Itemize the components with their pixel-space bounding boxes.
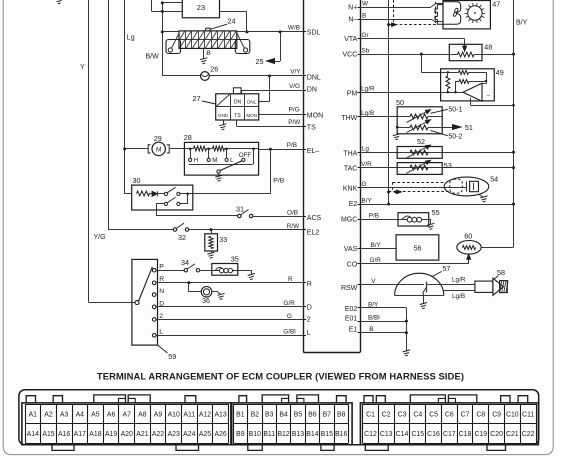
shift switch 59 box — [132, 259, 158, 345]
svg-text:A18: A18 — [89, 431, 101, 438]
svg-text:31: 31 — [236, 204, 244, 213]
node junction 23 pin B — [161, 10, 164, 13]
ground at top edge — [55, 0, 62, 4]
svg-text:A21: A21 — [136, 431, 148, 438]
wire DN (V/G) to ECM — [242, 90, 304, 92]
switch 28 track bar — [189, 164, 253, 166]
connector C feet — [365, 445, 388, 451]
pin MON (ECM left) — [304, 114, 307, 116]
svg-text:A22: A22 — [152, 431, 164, 438]
svg-text:L: L — [307, 330, 311, 337]
svg-text:E02: E02 — [345, 306, 358, 313]
svg-text:50: 50 — [396, 98, 404, 107]
contact M — [208, 149, 210, 158]
node B/Y-48 junction — [512, 53, 515, 56]
sensor-ground bus — [388, 0, 390, 204]
contact 59-L — [152, 334, 156, 338]
svg-text:B/W: B/W — [146, 53, 160, 60]
svg-text:G/Bl: G/Bl — [283, 329, 295, 336]
svg-text:C18: C18 — [459, 431, 472, 438]
contact L — [226, 149, 228, 158]
svg-text:Gr: Gr — [362, 32, 370, 39]
svg-text:R/W: R/W — [287, 223, 300, 230]
connector C tabs — [364, 396, 373, 403]
svg-text:B4: B4 — [279, 411, 288, 418]
svg-text:M: M — [156, 147, 161, 154]
svg-text:N+: N+ — [348, 4, 357, 11]
wire E ground rail — [406, 308, 408, 351]
svg-text:D: D — [307, 305, 312, 312]
switch 32 — [173, 228, 176, 231]
svg-text:N–: N– — [348, 16, 357, 23]
svg-text:A14: A14 — [27, 431, 39, 438]
svg-text:B: B — [362, 12, 366, 19]
svg-text:C8: C8 — [476, 411, 485, 418]
wire to lamp 36 — [188, 283, 190, 292]
svg-text:P/B: P/B — [369, 213, 379, 220]
wire heater 24 to SDL — [237, 31, 304, 33]
svg-text:G/R: G/R — [283, 300, 295, 307]
pin VTA (ECM right) — [358, 38, 361, 40]
svg-text:P/G: P/G — [289, 107, 300, 114]
pin N- (ECM right) — [358, 19, 361, 21]
svg-text:L: L — [159, 329, 163, 336]
svg-text:25: 25 — [256, 57, 264, 66]
ground knock sensor — [479, 194, 483, 197]
wire Lg vertical bus — [124, 0, 126, 194]
svg-text:B7: B7 — [323, 411, 332, 418]
buzzer 58 — [475, 281, 493, 292]
svg-text:35: 35 — [231, 254, 239, 263]
node R junction — [187, 281, 190, 284]
svg-text:A6: A6 — [107, 411, 116, 418]
svg-text:Sb: Sb — [362, 48, 370, 55]
node heater-SDL junction — [279, 30, 282, 33]
svg-text:P/B: P/B — [273, 178, 284, 185]
transistor dome 57 — [395, 273, 444, 295]
svg-text:EL–: EL– — [307, 148, 320, 155]
node VCC junction — [420, 53, 423, 56]
crank sensor 47 plug — [435, 5, 443, 25]
svg-text:60: 60 — [464, 232, 472, 241]
wire N+ (W) — [360, 7, 431, 9]
svg-text:ACS: ACS — [307, 215, 322, 222]
crank sensor 47 coil — [443, 2, 461, 24]
node B/Y-THA junction — [512, 151, 515, 154]
sensor 53 — [397, 163, 442, 175]
wire D to ECM — [156, 306, 304, 308]
blower switch 28 box — [184, 142, 258, 175]
svg-text:C20: C20 — [490, 431, 503, 438]
resistor 28-1 — [194, 146, 207, 151]
wire 23 pin A — [162, 2, 182, 4]
wire PM (Lg/R) — [360, 92, 463, 94]
pin DNL (ECM left) — [304, 75, 307, 77]
pin TS (ECM left) — [304, 126, 307, 128]
ground sensor 50 — [393, 134, 400, 140]
pin MGC (ECM right) — [358, 219, 361, 221]
connector B feet — [248, 445, 262, 451]
svg-text:2: 2 — [159, 313, 163, 320]
svg-text:C10: C10 — [506, 411, 519, 418]
49 internal feedback resistor — [456, 81, 460, 83]
lamp 36 — [201, 287, 212, 298]
svg-text:49: 49 — [496, 68, 504, 77]
svg-text:C19: C19 — [474, 431, 487, 438]
svg-text:A2: A2 — [44, 411, 53, 418]
svg-text:B16: B16 — [335, 431, 347, 438]
pin 2 (ECM left) — [304, 319, 307, 321]
svg-text:E2: E2 — [349, 201, 358, 208]
svg-text:A7: A7 — [122, 411, 131, 418]
switch 30 box — [132, 185, 193, 210]
svg-text:A9: A9 — [154, 411, 163, 418]
connector C shell — [360, 403, 538, 445]
svg-text:TS: TS — [234, 113, 241, 119]
connector B grid — [233, 404, 348, 406]
contact OFF — [242, 158, 245, 161]
wire TS to ECM — [236, 120, 238, 126]
wire TAC (V/R) — [360, 167, 514, 169]
svg-text:R: R — [307, 281, 312, 288]
ground under 57 — [420, 303, 427, 309]
node 28 M tap — [207, 148, 210, 151]
wire P/B branch down — [270, 149, 272, 194]
svg-text:N: N — [159, 288, 164, 295]
svg-text:E01: E01 — [345, 315, 358, 322]
svg-text:33: 33 — [219, 235, 227, 244]
svg-text:C22: C22 — [522, 431, 535, 438]
svg-text:48: 48 — [484, 42, 492, 51]
thermistor 50-1 — [410, 114, 428, 119]
svg-text:DNL: DNL — [307, 74, 321, 81]
ground ECM mains — [403, 350, 410, 356]
wire VCC (Sb) — [360, 54, 449, 56]
pin RSW (ECM right) — [358, 284, 361, 286]
svg-text:VCC: VCC — [343, 52, 358, 59]
svg-text:C12: C12 — [364, 431, 377, 438]
pin VCC (ECM right) — [358, 54, 361, 56]
ground under heater 24 — [200, 58, 207, 64]
contact 59-D — [152, 305, 156, 309]
svg-text:A3: A3 — [60, 411, 69, 418]
wire ACS to ECM — [253, 216, 304, 218]
check resistor 60 — [457, 241, 481, 255]
wire VAS (B/Y) — [360, 248, 396, 250]
air temp sensor 52 — [397, 147, 442, 159]
wire 2 to ECM — [156, 319, 304, 321]
svg-text:B3: B3 — [265, 411, 274, 418]
svg-text:MGC: MGC — [341, 217, 357, 224]
svg-text:V/G: V/G — [289, 83, 300, 90]
svg-text:C7: C7 — [461, 411, 470, 418]
svg-text:2: 2 — [307, 317, 311, 324]
wire Lg to motor 29 — [125, 148, 148, 150]
svg-text:Lg/R: Lg/R — [452, 277, 466, 284]
svg-text:THA: THA — [343, 151, 357, 158]
svg-text:MON: MON — [307, 112, 323, 119]
contact 59-P — [152, 268, 156, 272]
pin VAS (ECM right) — [358, 248, 361, 250]
svg-text:B12: B12 — [277, 431, 289, 438]
wire 35 to ground — [238, 270, 252, 272]
switch 34 — [184, 269, 187, 272]
wire 49 to B/Y bus — [471, 105, 514, 107]
knock sensor 54 inner element — [450, 179, 463, 193]
shield dashes around KNK — [393, 182, 444, 184]
svg-text:52: 52 — [417, 137, 425, 146]
svg-text:P/B: P/B — [287, 142, 297, 149]
check connector 26 — [201, 72, 210, 81]
shield dashes around N+/N- — [393, 0, 395, 23]
node DNL junction — [268, 75, 271, 78]
node bus-E2 junction — [387, 203, 390, 206]
svg-text:57: 57 — [442, 264, 450, 273]
contact H — [190, 149, 192, 158]
switch 59 arm — [139, 267, 153, 301]
svg-text:B10: B10 — [249, 431, 261, 438]
svg-text:27: 27 — [193, 94, 201, 103]
svg-text:H: H — [194, 157, 198, 164]
svg-text:50-2: 50-2 — [448, 134, 462, 141]
svg-text:50-1: 50-1 — [448, 106, 462, 113]
svg-text:VTA: VTA — [344, 36, 357, 43]
resistor 28-2 — [213, 146, 225, 151]
coil 35 box — [212, 264, 238, 276]
svg-text:V/Y: V/Y — [290, 69, 301, 76]
svg-text:28: 28 — [184, 133, 192, 142]
svg-text:C14: C14 — [396, 431, 409, 438]
node bus-shield junction — [387, 23, 390, 26]
ground under switch 28 — [215, 175, 222, 181]
wire Lg/B to buzzer — [443, 290, 475, 292]
svg-text:M: M — [212, 157, 217, 164]
ECM bottom edge — [304, 352, 361, 354]
connector B tabs — [239, 396, 247, 403]
svg-text:55: 55 — [432, 208, 440, 217]
wire MGC (P/B) — [360, 219, 398, 221]
svg-text:TS: TS — [307, 125, 316, 132]
wire E02 (B/Y) — [360, 307, 406, 309]
wire P to switch 34 — [156, 270, 184, 272]
heater 24 top tab — [206, 28, 210, 31]
svg-text:MON: MON — [246, 113, 257, 118]
svg-text:DNL: DNL — [247, 100, 257, 105]
svg-text:A25: A25 — [199, 431, 211, 438]
relay 23 — [182, 0, 219, 18]
pin L (ECM left) — [304, 335, 307, 337]
wire EL- to ECM — [259, 149, 304, 151]
svg-text:TAC: TAC — [344, 166, 357, 173]
svg-text:C15: C15 — [411, 431, 424, 438]
svg-text:59: 59 — [168, 352, 176, 361]
wire 30 lower output — [156, 203, 164, 205]
wire RSW (V) — [360, 284, 424, 286]
svg-text:C21: C21 — [506, 431, 519, 438]
svg-text:EL2: EL2 — [307, 229, 320, 236]
node 28 right tap — [252, 148, 255, 151]
svg-text:B14: B14 — [306, 431, 318, 438]
control unit 56 — [396, 235, 439, 260]
node EL2 junction — [210, 228, 213, 231]
resistor 33 box — [205, 234, 218, 251]
svg-text:A20: A20 — [121, 431, 133, 438]
svg-text:O/B: O/B — [287, 210, 298, 217]
pin KNK (ECM right) — [358, 187, 361, 189]
pin DN (ECM left) — [304, 90, 307, 92]
svg-text:W/B: W/B — [288, 25, 300, 32]
water temp sensor 50 box — [397, 107, 442, 134]
wire 55 to ground — [429, 219, 431, 221]
connector 25 pull-out — [280, 32, 282, 61]
pin ACS (ECM left) — [304, 216, 307, 218]
node 28 H tap — [189, 148, 192, 151]
svg-text:B: B — [206, 50, 211, 57]
wire N- (B) — [360, 19, 431, 21]
svg-text:RSW: RSW — [341, 285, 358, 292]
svg-text:47: 47 — [492, 0, 500, 8]
svg-text:R: R — [288, 276, 293, 283]
node junction heater wire — [161, 30, 164, 33]
pin EL- (ECM left) — [304, 149, 307, 151]
svg-text:54: 54 — [490, 174, 498, 183]
svg-text:C17: C17 — [443, 431, 456, 438]
svg-text:C6: C6 — [445, 411, 454, 418]
motor 29 — [152, 142, 165, 155]
svg-text:A15: A15 — [42, 431, 54, 438]
wire EL2 to ECM — [189, 229, 304, 231]
switch 28 arm — [219, 161, 242, 171]
svg-text:C4: C4 — [413, 411, 422, 418]
node junction 23 pin A — [161, 1, 164, 4]
svg-text:26: 26 — [210, 65, 218, 74]
svg-text:DN: DN — [234, 100, 242, 106]
svg-text:C2: C2 — [382, 411, 391, 418]
pin TAC (ECM right) — [358, 167, 361, 169]
svg-text:GND: GND — [218, 113, 229, 118]
svg-text:P: P — [159, 264, 164, 271]
knock sensor 54 shell — [444, 177, 489, 196]
wire VTA (Gr) — [360, 38, 465, 40]
node 30 junction — [186, 193, 189, 196]
svg-text:51: 51 — [465, 123, 473, 132]
B/Y ground bus — [513, 0, 515, 247]
svg-text:A11: A11 — [183, 411, 195, 418]
switch 30 upper — [157, 193, 164, 195]
svg-text:B2: B2 — [251, 411, 260, 418]
svg-text:32: 32 — [178, 233, 186, 242]
svg-text:24: 24 — [228, 17, 236, 26]
pin D (ECM left) — [304, 306, 307, 308]
svg-text:CO: CO — [347, 261, 358, 268]
svg-text:C1: C1 — [366, 411, 375, 418]
svg-text:G: G — [287, 313, 292, 320]
svg-text:V: V — [371, 278, 376, 285]
svg-text:A10: A10 — [168, 411, 180, 418]
wire VCC branch to 49 — [421, 54, 423, 72]
svg-text:53: 53 — [444, 161, 452, 170]
wire L to ECM — [156, 335, 304, 337]
pin PM (ECM right) — [358, 92, 361, 94]
wire THW (Lg/B) — [360, 116, 410, 118]
heater 24 right foot — [235, 40, 250, 54]
svg-text:B8: B8 — [337, 411, 346, 418]
svg-text:36: 36 — [202, 296, 210, 305]
ground under sensor 27 — [219, 124, 226, 130]
wire E01 (B/Bl) — [360, 321, 406, 323]
svg-text:C5: C5 — [429, 411, 438, 418]
svg-text:SDL: SDL — [307, 29, 321, 36]
wire DNL to ECM — [209, 75, 303, 77]
svg-text:A17: A17 — [74, 431, 86, 438]
pin R (ECM left) — [304, 282, 307, 284]
svg-text:C16: C16 — [427, 431, 440, 438]
svg-text:A24: A24 — [183, 431, 195, 438]
svg-text:34: 34 — [181, 258, 189, 267]
throttle sensor 48 box — [449, 44, 482, 60]
svg-text:OFF: OFF — [239, 152, 252, 159]
svg-text:B/Bl: B/Bl — [368, 315, 380, 322]
connector A shell — [22, 403, 231, 445]
ground after 55 — [427, 223, 434, 229]
svg-text:A12: A12 — [199, 411, 211, 418]
wire 23 pin B — [152, 11, 183, 13]
svg-text:Lg: Lg — [362, 146, 370, 153]
svg-text:B/Y: B/Y — [516, 20, 528, 27]
svg-text:−: − — [487, 94, 491, 100]
wire stub top to relay 23 — [151, 0, 153, 11]
svg-text:C13: C13 — [380, 431, 393, 438]
thermistor 50-2 — [397, 127, 410, 129]
49 internal top resistor — [441, 72, 459, 74]
wire 33 ground stub — [211, 251, 213, 253]
pin THW (ECM right) — [358, 116, 361, 118]
svg-text:W: W — [362, 0, 369, 7]
svg-text:P/W: P/W — [288, 119, 301, 126]
wire middle vertical bus (to Y/G) — [108, 0, 110, 229]
panel frame — [19, 390, 539, 445]
connector C grid — [363, 404, 536, 406]
wire Lg/R to buzzer — [426, 284, 475, 286]
wire into heater 24 — [162, 31, 179, 33]
svg-text:B9: B9 — [236, 431, 245, 438]
svg-text:A23: A23 — [168, 431, 180, 438]
pin SDL (ECM left) — [304, 31, 307, 33]
pin E1 (ECM right) — [358, 332, 361, 334]
node Lg-blower junction — [123, 147, 126, 150]
svg-text:KNK: KNK — [343, 186, 358, 193]
wire 28 ground stub — [218, 173, 220, 176]
svg-text:B1: B1 — [236, 411, 245, 418]
svg-text:DN: DN — [307, 87, 317, 94]
svg-text:THW: THW — [341, 115, 357, 122]
node 28 L tap — [225, 148, 228, 151]
wire to resistor 33 — [211, 230, 213, 234]
svg-text:29: 29 — [154, 134, 162, 143]
svg-text:C9: C9 — [492, 411, 501, 418]
svg-text:B/Y: B/Y — [362, 198, 373, 205]
svg-text:23: 23 — [197, 3, 205, 12]
node 23 output junction — [245, 30, 248, 33]
crank sensor 47 box — [443, 1, 490, 29]
wire E1 (B) — [360, 332, 406, 334]
ECM left edge — [303, 0, 305, 353]
heater 24 left foot — [166, 40, 181, 54]
heater element 24 body — [179, 31, 237, 49]
pin E02 (ECM right) — [358, 307, 361, 309]
wire 36 to ground — [212, 291, 218, 293]
svg-text:A16: A16 — [58, 431, 70, 438]
